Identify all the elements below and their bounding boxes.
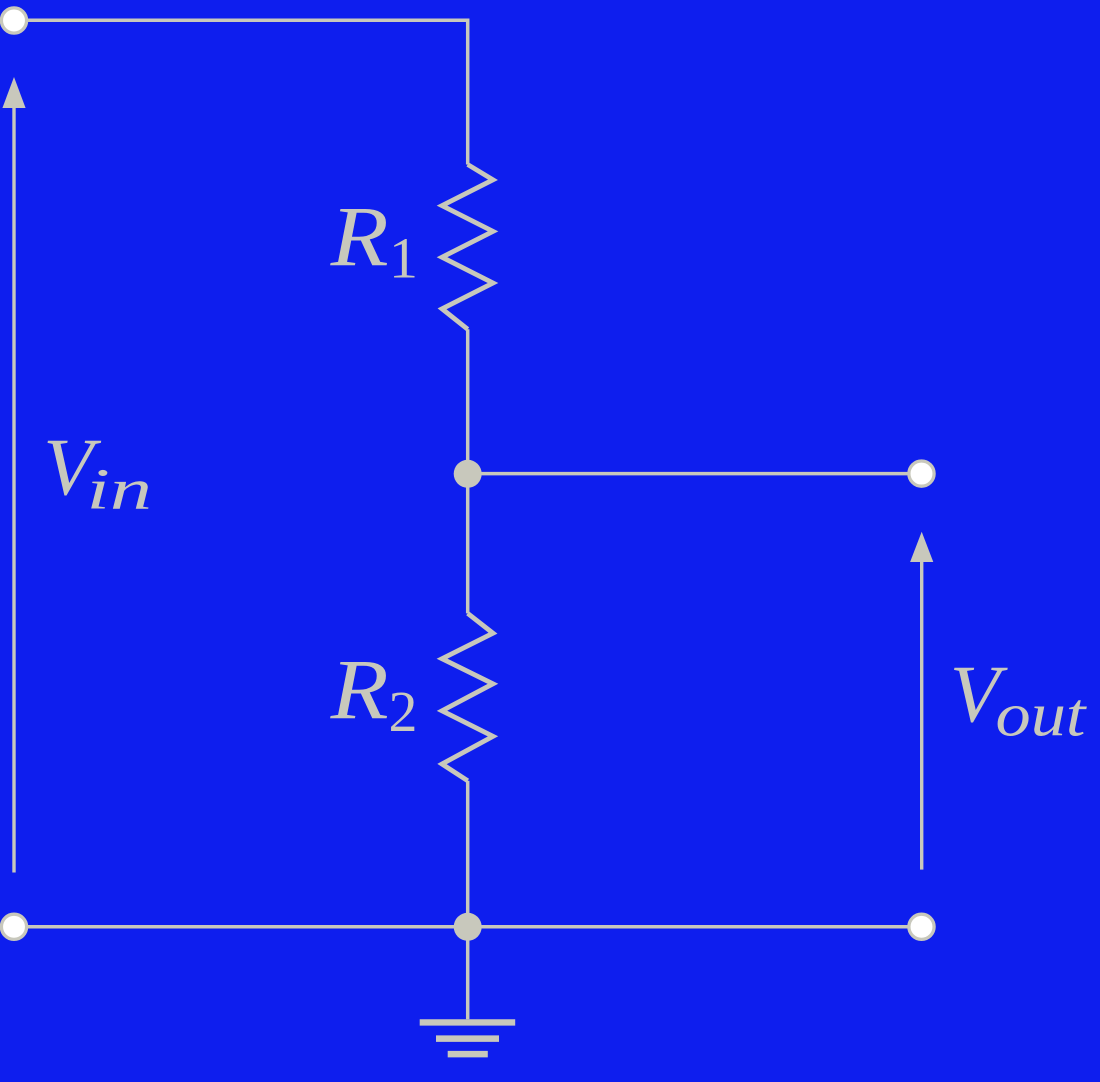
svg-text:out: out — [996, 682, 1088, 750]
terminal Vout- (open circle bottom right) — [909, 914, 934, 939]
wire top from Vin+ terminal to R1 — [26, 20, 468, 164]
Vout arrow — [910, 532, 933, 870]
ground lead wire — [466, 927, 470, 1019]
ground — [420, 1022, 516, 1054]
terminal Vout+ (open circle) — [909, 461, 934, 486]
node bottom junction dot — [454, 913, 482, 941]
node mid junction dot — [454, 460, 482, 488]
wire R2 to bottom node — [466, 781, 470, 927]
Vin arrow — [2, 77, 25, 873]
wire mid node to R2 — [466, 474, 470, 614]
bottom wire — [26, 925, 908, 929]
svg-text:1: 1 — [389, 225, 418, 290]
svg-text:2: 2 — [389, 679, 418, 744]
resistor R2 — [442, 613, 493, 780]
terminal Vin+ (open circle top left) — [1, 8, 26, 33]
wire mid node to Vout+ terminal — [468, 472, 920, 476]
resistor R1 — [442, 165, 493, 330]
svg-text:R: R — [329, 188, 388, 284]
terminal Vin- (open circle bottom left) — [1, 914, 26, 939]
wire R1 to mid node — [466, 329, 470, 473]
svg-text:R: R — [329, 641, 388, 737]
svg-text:in: in — [87, 457, 153, 522]
